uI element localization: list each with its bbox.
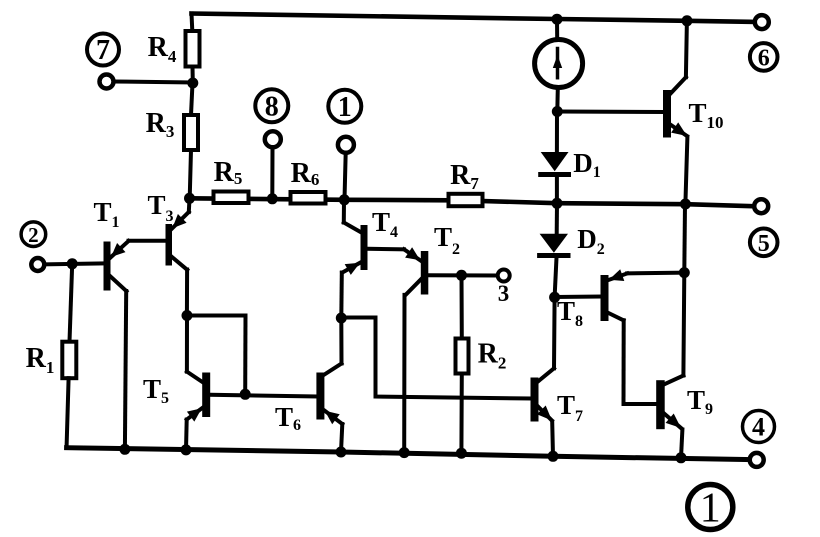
svg-text:T5: T5 bbox=[143, 374, 169, 407]
transistor T2 bbox=[404, 247, 428, 452]
wire T2 base to terminal 3 bbox=[428, 273, 498, 277]
wire T4 base link bbox=[368, 247, 405, 252]
resistor R5 bbox=[214, 192, 249, 204]
wire R1 bottom lead bbox=[67, 378, 69, 446]
svg-text:T2: T2 bbox=[434, 222, 460, 258]
wire T1 collector to T3 base bbox=[129, 239, 166, 243]
svg-text:R6: R6 bbox=[291, 158, 320, 189]
resistor R2 bbox=[456, 339, 469, 374]
wire mirror link vertical bbox=[243, 316, 247, 395]
node terminal1 bus junction bbox=[339, 194, 350, 205]
terminal 8 open circle bbox=[265, 131, 281, 147]
wire output vertical line bbox=[682, 204, 687, 273]
wire top rail V+ bbox=[192, 14, 755, 22]
transistor T6 bbox=[316, 318, 342, 452]
node terminal8 bus junction bbox=[267, 193, 278, 204]
node T7 emitter bus junction bbox=[548, 451, 559, 462]
terminal 3 open circle bbox=[498, 270, 510, 282]
node T5 emitter bus junction bbox=[181, 444, 192, 455]
wire R2 top lead bbox=[460, 275, 464, 338]
wire R4 top lead bbox=[190, 14, 195, 32]
svg-text:T3: T3 bbox=[147, 190, 173, 225]
svg-text:8: 8 bbox=[265, 92, 279, 123]
svg-text:2: 2 bbox=[28, 223, 39, 247]
node T8 emitter / output line junction bbox=[679, 267, 690, 278]
node T10 emitter bus junction bbox=[680, 199, 691, 210]
terminal 5 open circle bbox=[754, 199, 768, 213]
node T6 emitter bus junction bbox=[336, 447, 347, 458]
node D1/D2 bus junction bbox=[552, 198, 563, 209]
wire T9 base lead bbox=[624, 402, 657, 406]
svg-text:6: 6 bbox=[758, 46, 770, 72]
svg-text:1: 1 bbox=[700, 486, 721, 532]
wire T5-T6 base rail bbox=[210, 395, 316, 397]
svg-text:R3: R3 bbox=[146, 108, 175, 141]
transistor T4 bbox=[341, 200, 367, 318]
pin label circled 5 bbox=[750, 229, 778, 257]
wire middle bus bbox=[190, 198, 449, 200]
svg-text:D2: D2 bbox=[577, 224, 605, 258]
transistor T1 bbox=[104, 241, 129, 449]
transistor T3 bbox=[166, 199, 190, 316]
svg-text:T7: T7 bbox=[557, 390, 583, 425]
resistor R7 bbox=[449, 194, 483, 206]
transistor T5 bbox=[186, 316, 210, 450]
node T9 emitter bus junction bbox=[676, 452, 687, 463]
svg-text:T1: T1 bbox=[93, 197, 119, 231]
transistor T9 bbox=[656, 376, 683, 458]
wire bottom bus bbox=[67, 448, 750, 460]
wire to T10 base bbox=[557, 110, 663, 115]
node R4/R3/term7 junction bbox=[187, 78, 198, 89]
node T3 emitter / T5 collector junction bbox=[182, 310, 193, 321]
node R2 bus junction bbox=[456, 448, 467, 459]
svg-text:1: 1 bbox=[338, 92, 352, 123]
node D2 / T7 collector junction bbox=[549, 292, 560, 303]
wire R3 top lead bbox=[191, 83, 193, 115]
wire terminal 7 lead bbox=[114, 82, 193, 83]
resistor R4 bbox=[186, 31, 200, 67]
svg-text:D1: D1 bbox=[573, 148, 601, 181]
wire R3 bottom lead bbox=[190, 150, 191, 198]
pin label circled 2 bbox=[21, 222, 46, 247]
svg-text:3: 3 bbox=[498, 281, 510, 306]
node T1 emitter bus junction bbox=[119, 444, 130, 455]
diode D1 bbox=[541, 112, 569, 204]
terminal 1 open circle bbox=[338, 137, 354, 153]
wire terminal 1 lead bbox=[345, 153, 346, 200]
figure number circled 1 bbox=[688, 485, 733, 530]
node top rail current source junction bbox=[552, 14, 563, 25]
pin label circled 4 bbox=[743, 411, 775, 443]
transistor T8 bbox=[601, 269, 685, 404]
resistor R1 bbox=[62, 342, 76, 379]
node current source bottom junction bbox=[552, 106, 563, 117]
svg-text:R4: R4 bbox=[148, 32, 177, 66]
svg-text:R1: R1 bbox=[26, 343, 55, 377]
terminal 7 open circle bbox=[100, 75, 114, 89]
svg-text:R2: R2 bbox=[478, 339, 507, 373]
pin label circled 8 bbox=[255, 89, 288, 122]
svg-text:T10: T10 bbox=[688, 98, 723, 132]
svg-text:T8: T8 bbox=[557, 296, 583, 330]
wire junction to T7 base: horizontal top bbox=[341, 318, 530, 399]
wire R2 bottom lead bbox=[459, 374, 463, 454]
svg-text:R5: R5 bbox=[214, 157, 243, 188]
pin label circled 1 bbox=[328, 90, 361, 123]
svg-text:T6: T6 bbox=[275, 402, 301, 434]
node top rail T10 junction bbox=[682, 15, 693, 26]
wire terminal 8 lead bbox=[270, 147, 274, 199]
wire mirror link horizontal bbox=[187, 314, 246, 318]
pin label circled 6 bbox=[750, 43, 778, 71]
svg-text:5: 5 bbox=[758, 231, 770, 257]
svg-text:T9: T9 bbox=[687, 385, 713, 418]
transistor T7 bbox=[531, 297, 555, 456]
svg-text:T4: T4 bbox=[372, 207, 398, 241]
terminal 6 open circle bbox=[755, 15, 769, 29]
node T5 base rail junction bbox=[240, 389, 251, 400]
diode D2 bbox=[540, 203, 568, 297]
node R3 bus junction bbox=[184, 193, 195, 204]
terminal 2 open circle bbox=[31, 258, 44, 271]
node T2 collector bus junction bbox=[399, 447, 410, 458]
current source I1 bbox=[535, 19, 583, 112]
resistor R3 bbox=[184, 115, 198, 150]
terminal 4 open circle bbox=[750, 453, 764, 467]
wire terminal 2 lead bbox=[44, 263, 103, 264]
wire R4 bottom lead bbox=[191, 67, 195, 84]
svg-text:7: 7 bbox=[96, 35, 110, 66]
node R1 top junction bbox=[67, 258, 78, 269]
node R2 top junction bbox=[456, 270, 467, 281]
resistor R6 bbox=[291, 192, 326, 204]
transistor T10 bbox=[663, 21, 687, 204]
node T4 emitter / T6 collector junction bbox=[336, 313, 347, 324]
wire R1 top lead bbox=[70, 264, 73, 342]
svg-text:R7: R7 bbox=[450, 160, 479, 193]
pin label circled 7 bbox=[87, 34, 119, 66]
svg-text:4: 4 bbox=[752, 413, 765, 442]
wire to T8 base bbox=[555, 295, 601, 300]
